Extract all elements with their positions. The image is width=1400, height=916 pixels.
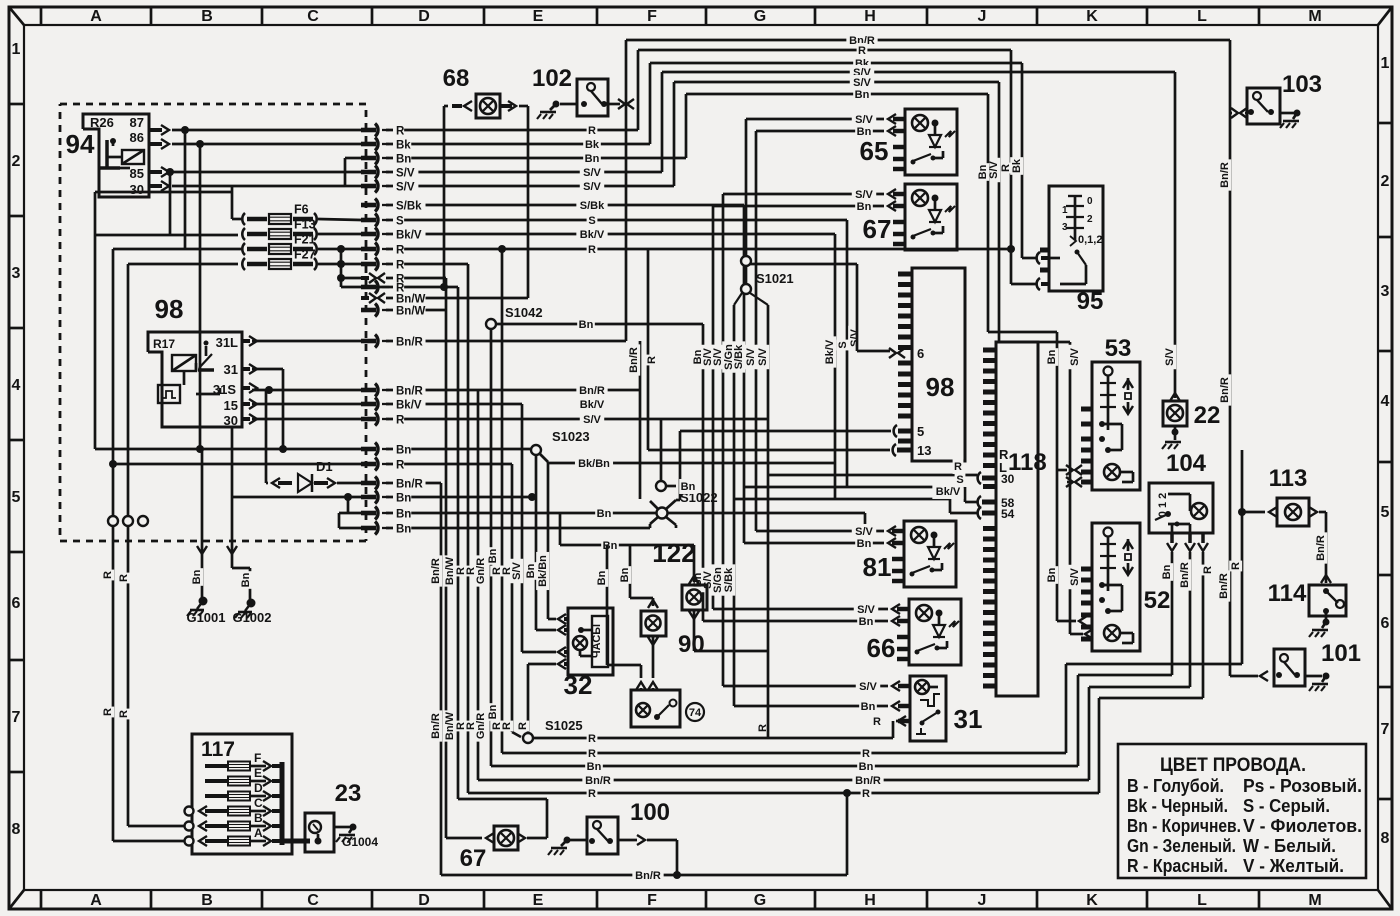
conn 98 pin13 [893,444,896,456]
wire row158 Bn [386,157,686,160]
wire vx744 SBk [743,205,746,487]
wire vx266 [265,390,268,483]
lamp 90 [641,611,666,636]
grid numbers left [9,103,24,106]
svg-text:Bn: Bn [859,616,874,628]
svg-text:Bk/V: Bk/V [396,400,422,412]
svg-text:R: R [588,125,596,137]
svg-text:ЧАСЫ: ЧАСЫ [591,624,603,658]
fuse F27 [242,258,245,270]
svg-text:Bn: Bn [579,319,594,331]
conn 104 pins [1170,533,1174,543]
svg-text:Bn: Bn [191,569,203,584]
wire S1023 drop [535,455,538,630]
svg-text:F: F [254,751,261,765]
svg-text:R: R [118,710,130,718]
svg-text:S/Bk: S/Bk [396,201,422,213]
label S/V row 186 mid [580,179,604,194]
svg-text:86: 86 [130,130,144,145]
svg-text:M: M [1308,892,1321,909]
wire 94.30 row [172,185,345,188]
wire vx170 [169,172,172,235]
svg-text:104: 104 [1166,450,1207,477]
svg-text:Bn/R: Bn/R [635,870,661,882]
relay 98L wires internal [196,393,220,396]
svg-text:Bk: Bk [585,139,600,151]
svg-text:114: 114 [1268,580,1307,607]
label S row 220 mid [587,213,598,228]
turn signal unit 66 [909,599,961,665]
svg-text:S/V: S/V [396,168,415,180]
wire vx458 R [457,287,460,799]
boundary X pin R 278 [369,273,376,283]
wire S1021a right [750,263,857,266]
wire S1021b left [734,293,742,305]
wire row390 Bn/R [252,389,361,392]
svg-text:Bk/V: Bk/V [824,339,836,364]
wire S1021b right [750,293,768,305]
relay 94 contact [105,140,109,167]
relay 94 coil [122,150,144,164]
switch 74 unit [636,682,646,690]
svg-text:5: 5 [917,424,924,439]
wire 102 to BnR [618,99,625,109]
svg-text:F27: F27 [294,248,316,262]
boundary pin labels [393,125,404,136]
wire F6 out [318,219,361,220]
wire vx341 bracket [340,249,343,287]
svg-text:S1025: S1025 [545,718,583,733]
relay 98L pin 31S [242,386,250,390]
svg-text:Bn/R: Bn/R [430,558,442,584]
svg-text:R17: R17 [153,337,175,351]
conn 52 pin1 [1079,616,1087,626]
svg-text:117: 117 [201,738,235,761]
conn 66 SV [892,604,900,614]
svg-text:Bn/R: Bn/R [396,479,424,491]
wire row172 SV [386,171,662,174]
wire 94.86 row [172,143,361,146]
svg-text:F13: F13 [294,218,316,232]
svg-text:S: S [837,341,849,348]
svg-text:J: J [978,8,987,25]
labels 118 rows [953,459,964,474]
svg-text:S/V: S/V [745,347,757,365]
svg-text:101: 101 [1321,640,1361,667]
svg-text:S - Серый.: S - Серый. [1243,796,1330,816]
fusebox 117 [192,734,292,854]
wire 53 x jog2 [1067,481,1070,484]
wire row499 BkV [734,498,950,501]
svg-text:W - Белый.: W - Белый. [1243,836,1336,856]
svg-text:H: H [864,892,876,909]
svg-text:K: K [1086,892,1098,909]
svg-text:Bn/R: Bn/R [1218,573,1230,599]
wire vx283 [282,369,285,449]
svg-text:S/V: S/V [757,347,769,365]
harness dashed boundary box [60,104,366,541]
diode D1 [298,474,312,492]
wire 95 R feed [1011,283,1036,286]
legend color code box [1118,744,1366,878]
label Bk/V row 234 mid [576,227,607,242]
svg-text:E: E [533,892,544,909]
svg-text:Bn: Bn [396,445,411,457]
svg-text:R: R [396,460,405,472]
svg-text:Bn: Bn [603,540,618,552]
svg-text:R: R [118,574,130,582]
wire row341 inner [252,340,361,343]
wire z780 [1088,687,1091,780]
svg-text:0: 0 [1087,196,1093,207]
conn 98r pin6 x [889,348,896,358]
svg-text:100: 100 [630,799,670,826]
svg-text:Bk - Черный.: Bk - Черный. [1127,796,1228,816]
svg-text:S/V: S/V [396,182,415,194]
svg-text:53: 53 [1105,335,1132,362]
relay 98L pin 31L [242,339,250,343]
svg-text:S/V: S/V [583,414,601,426]
diode D1 row [266,482,268,485]
svg-text:Bk: Bk [1011,158,1023,173]
conn 95 pin1 [1037,252,1040,264]
svg-text:Bk/V: Bk/V [396,230,422,242]
conn 66 Bn [892,616,900,626]
svg-text:66: 66 [867,633,896,663]
wire row404 Bk/V [252,403,361,406]
wire 90 feed [629,545,632,598]
label S/Bk row 205 mid [576,198,607,213]
svg-text:1: 1 [12,41,21,58]
svg-text:C: C [307,8,319,25]
svg-text:S/V: S/V [583,167,601,179]
wire Bn right of 118 [988,331,1057,334]
label R row 130 mid [587,123,598,138]
svg-text:Bn: Bn [487,704,499,719]
wire top Bn/R [626,39,1230,42]
svg-text:Bn: Bn [859,761,874,773]
turn signal unit 67 [905,184,957,250]
turn signal unit 65 [905,109,957,175]
conn 65 SV [746,118,884,121]
conn 31 Bn [892,701,900,711]
svg-text:S/V: S/V [511,561,523,579]
svg-text:54: 54 [1001,507,1015,521]
wire row186 SV [386,185,674,188]
svg-text:Bn/R: Bn/R [396,337,424,349]
wire vx703 Bn [702,324,705,621]
relay 98L pin 30 [242,417,250,421]
svg-text:R: R [588,733,596,745]
wire row875 BnR [441,874,847,877]
svg-text:G: G [754,892,766,909]
conn 31 R [898,716,906,726]
relay 98L pin 15 [242,402,250,406]
svg-text:D1: D1 [316,459,333,474]
wire row234 BkV [386,233,835,236]
splice S1021 upper [741,256,751,266]
svg-text:65: 65 [860,136,889,166]
wire rows 512 527 bracket [347,497,350,513]
svg-text:F6: F6 [294,203,309,217]
label S/V row 172 mid [580,165,604,180]
wire 32 pin4 feed [528,663,556,666]
conn 53 x1 [1066,465,1073,475]
svg-text:81: 81 [863,552,892,582]
wire vx768 low [767,475,770,738]
wire z766 [1077,675,1080,766]
svg-text:R: R [1202,566,1214,574]
conn 67 Bn [713,205,884,208]
wire z793 [1098,698,1101,793]
conn 67 SV [723,193,884,196]
wire row264 R [386,263,468,266]
svg-text:67: 67 [863,214,892,244]
svg-text:B: B [201,892,213,909]
svg-text:Bn: Bn [681,481,696,493]
wire vx640 [639,341,642,499]
svg-text:Bk: Bk [396,140,411,152]
svg-text:Bn: Bn [1161,564,1173,579]
svg-text:68: 68 [443,65,470,92]
svg-text:Bn/R: Bn/R [430,713,442,739]
wire 53 x jog1 [1057,469,1067,472]
svg-text:J: J [978,892,987,909]
svg-text:Bn/W: Bn/W [396,294,426,306]
wire row369 [252,368,283,371]
svg-text:G: G [754,8,766,25]
grid letters top [40,7,43,25]
wire row513 right [668,512,865,515]
wire 68 right [527,106,530,298]
svg-text:6: 6 [917,346,924,361]
wire vx713 SV [712,206,715,609]
wire z752 [1065,664,1068,753]
svg-text:98: 98 [155,294,184,324]
wire F27 out [318,263,361,266]
conn 118 pin30 [978,472,981,484]
svg-text:Bn: Bn [857,201,872,213]
svg-text:S: S [396,216,404,228]
svg-text:2: 2 [12,153,21,170]
svg-text:R: R [517,722,529,730]
svg-text:S1042: S1042 [505,305,543,320]
svg-text:3: 3 [1381,283,1390,300]
svg-text:30: 30 [1001,472,1015,486]
wire top Bn [686,93,988,96]
svg-text:94: 94 [66,129,95,159]
wire 98 pin5 feed [680,430,891,433]
svg-text:31: 31 [954,704,983,734]
svg-text:31: 31 [224,362,238,377]
svg-text:Bn/R: Bn/R [1179,562,1191,588]
svg-text:G1002: G1002 [232,610,271,625]
wire hline 235 F13 [95,234,238,237]
wire 94.85 row [172,171,341,174]
conn 65 Bn [756,130,884,133]
svg-text:S1023: S1023 [552,429,590,444]
svg-text:A: A [254,826,263,840]
svg-text:Bn/R: Bn/R [1219,377,1231,403]
svg-text:R: R [102,571,114,579]
splice S1042 [486,319,496,329]
relay 98L coil [172,355,196,371]
svg-text:S/V: S/V [859,681,877,693]
svg-text:F: F [647,892,657,909]
label R vx113 [101,570,114,581]
wire top R [638,49,1011,52]
svg-text:5: 5 [12,489,21,506]
unit 31 [910,676,946,741]
connector 118 body [996,342,1038,696]
svg-text:R: R [588,748,596,760]
lamp 122a [682,585,707,610]
wire 32 pin2 feed [536,629,556,632]
svg-text:8: 8 [1381,830,1390,847]
svg-text:S/Bk: S/Bk [580,200,605,212]
relay 94 pin 86 [149,142,162,146]
svg-text:R: R [396,260,405,272]
svg-text:6: 6 [1381,615,1390,632]
wire 113 to 114 [1325,512,1328,583]
svg-text:Bn: Bn [977,164,989,179]
wire row793 R [468,792,1099,795]
wire row780 BnR [478,779,1089,782]
svg-text:4: 4 [1381,393,1390,410]
wire 94.87 row [172,129,361,132]
svg-text:98: 98 [926,372,955,402]
label R row 249 mid [587,242,598,257]
svg-text:15: 15 [224,398,238,413]
svg-text:Ps - Розовый.: Ps - Розовый. [1243,776,1362,796]
svg-text:90: 90 [678,631,705,658]
svg-text:Bn/R: Bn/R [1219,162,1231,188]
svg-text:R: R [862,788,870,800]
svg-text:D: D [418,8,430,25]
svg-text:R: R [588,244,596,256]
svg-text:S/V: S/V [1069,347,1081,365]
svg-text:B: B [254,811,263,825]
splice S1022 [657,508,668,519]
svg-text:Bn: Bn [587,761,602,773]
svg-text:R - Красный.: R - Красный. [1127,856,1228,876]
wire row464 R [113,463,361,466]
svg-text:7: 7 [12,709,21,726]
wire row419 R [252,418,361,421]
svg-text:1: 1 [1381,55,1390,72]
svg-text:S/V: S/V [583,181,601,193]
wire vx723 SV [722,194,725,686]
wire S1023 diag [540,454,548,462]
wire vx756 SV [755,131,758,531]
relay 98L timer box [158,385,180,403]
conn 117 circles [185,807,194,816]
svg-text:30: 30 [130,182,144,197]
svg-text:87: 87 [130,115,144,130]
conn 52 pin2 [1085,629,1093,639]
wire vx269 31S [268,388,271,390]
svg-text:Bn/W: Bn/W [396,306,426,318]
svg-text:Bn/R: Bn/R [579,385,605,397]
svg-text:Bn: Bn [1046,567,1058,582]
svg-text:L: L [1197,8,1207,25]
lamp 67 bottom [494,826,518,850]
svg-text:102: 102 [532,65,572,92]
wire row766 Bn [491,765,1078,768]
wire vx441 BnR [440,483,443,875]
svg-text:ЦВЕТ ПРОВОДА.: ЦВЕТ ПРОВОДА. [1160,755,1306,776]
wire row249 R [386,248,1011,251]
wire row483 out [386,482,441,485]
wire vx768 SV [767,305,770,475]
svg-text:G1001: G1001 [186,610,225,625]
wire G1002 drop [231,427,234,497]
label Bn row 158 mid [583,151,601,166]
svg-text:Bn: Bn [396,154,411,166]
svg-text:67: 67 [460,845,487,872]
wire row287 [341,286,458,289]
conn 53 x2 [1066,477,1073,487]
wire row487 S [744,486,965,489]
svg-text:F: F [647,8,657,25]
svg-text:Bn: Bn [240,572,252,587]
conn 95 pin2 [1037,278,1040,290]
wire row475 R [768,474,977,477]
wire G1001 drop [201,449,204,556]
wire row144 Bk [386,143,650,146]
conn 118 pin54 [978,507,981,519]
label Bk row 144 mid [583,137,601,152]
svg-text:23: 23 [335,780,362,807]
label SV 857 [848,326,861,350]
svg-text:V - Желтый.: V - Желтый. [1243,856,1344,876]
wire row205 S/Bk [386,204,744,207]
wire row545 Bn [560,544,694,547]
svg-text:Bk/V: Bk/V [936,486,961,498]
wire row278 stub [341,277,369,280]
grid numbers right [1378,122,1392,125]
wire S1022 branches [650,501,658,509]
svg-text:R: R [954,461,962,473]
headlamp switch 53 [1092,362,1140,490]
wire vx548 BkBn [536,552,549,590]
svg-text:R26: R26 [90,115,114,130]
svg-text:Bk/V: Bk/V [580,399,605,411]
svg-text:31L: 31L [216,335,238,350]
svg-text:52: 52 [1144,587,1171,614]
svg-text:113: 113 [1269,465,1308,492]
svg-text:R: R [1230,562,1242,570]
wire 74 feed left [606,545,609,665]
wire row449 Bn [95,448,361,451]
svg-text:3: 3 [12,265,21,282]
svg-text:C: C [254,796,263,810]
svg-text:8: 8 [12,821,21,838]
wire vx512 R [511,464,514,732]
svg-text:4: 4 [12,377,21,394]
conn 32 pins [558,614,566,624]
relay 98L pin 31 [242,367,250,371]
svg-text:Gn/R: Gn/R [475,713,487,739]
svg-text:Gn/R: Gn/R [475,558,487,584]
splice S1023 [531,445,541,455]
conn 81 SV [888,526,896,536]
svg-text:Gn - Зеленый.: Gn - Зеленый. [1127,836,1236,856]
wire 104 Bn [1171,552,1174,675]
wire 81 Bn feed [743,487,746,543]
svg-text:B - Голубой.: B - Голубой. [1127,776,1224,796]
wire vx468 R [467,264,470,793]
